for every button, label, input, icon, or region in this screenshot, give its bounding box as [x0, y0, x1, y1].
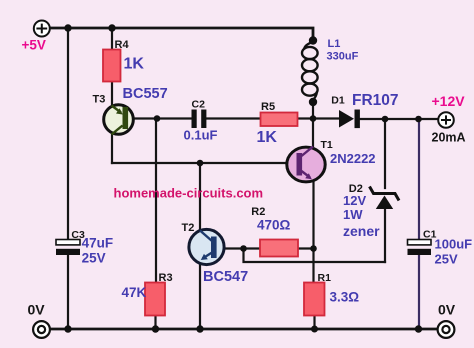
svg-text:homemade-circuits.com: homemade-circuits.com — [114, 186, 264, 201]
svg-text:1K: 1K — [257, 129, 278, 146]
svg-text:zener: zener — [343, 223, 380, 239]
svg-text:T3: T3 — [93, 94, 106, 106]
svg-text:100uF: 100uF — [435, 237, 473, 252]
svg-text:+5V: +5V — [22, 38, 46, 53]
svg-text:BC557: BC557 — [123, 86, 168, 102]
svg-text:20mA: 20mA — [432, 131, 466, 145]
svg-text:C2: C2 — [192, 99, 206, 111]
svg-text:0.1uF: 0.1uF — [184, 128, 218, 143]
svg-text:R5: R5 — [261, 101, 275, 113]
svg-text:FR107: FR107 — [352, 92, 399, 109]
svg-text:BC547: BC547 — [203, 269, 248, 285]
svg-text:2N2222: 2N2222 — [330, 151, 376, 166]
svg-text:3.3Ω: 3.3Ω — [330, 290, 360, 305]
svg-text:1W: 1W — [343, 207, 363, 222]
svg-text:R3: R3 — [159, 272, 173, 284]
svg-text:47K: 47K — [122, 285, 147, 300]
svg-text:1K: 1K — [124, 56, 145, 73]
svg-text:D1: D1 — [331, 95, 345, 107]
svg-text:R4: R4 — [115, 39, 130, 51]
svg-text:+12V: +12V — [432, 93, 466, 109]
svg-text:R1: R1 — [318, 272, 332, 284]
svg-text:470Ω: 470Ω — [257, 218, 291, 233]
svg-text:47uF: 47uF — [82, 236, 114, 251]
svg-text:T2: T2 — [182, 222, 195, 234]
svg-text:25V: 25V — [82, 251, 106, 266]
svg-text:25V: 25V — [435, 252, 458, 267]
svg-text:T1: T1 — [321, 139, 333, 151]
svg-text:0V: 0V — [438, 302, 456, 318]
svg-text:L1: L1 — [328, 38, 341, 50]
svg-text:0V: 0V — [28, 302, 46, 318]
svg-text:12V: 12V — [343, 193, 366, 208]
svg-text:R2: R2 — [251, 206, 265, 218]
svg-text:330uF: 330uF — [327, 51, 359, 63]
